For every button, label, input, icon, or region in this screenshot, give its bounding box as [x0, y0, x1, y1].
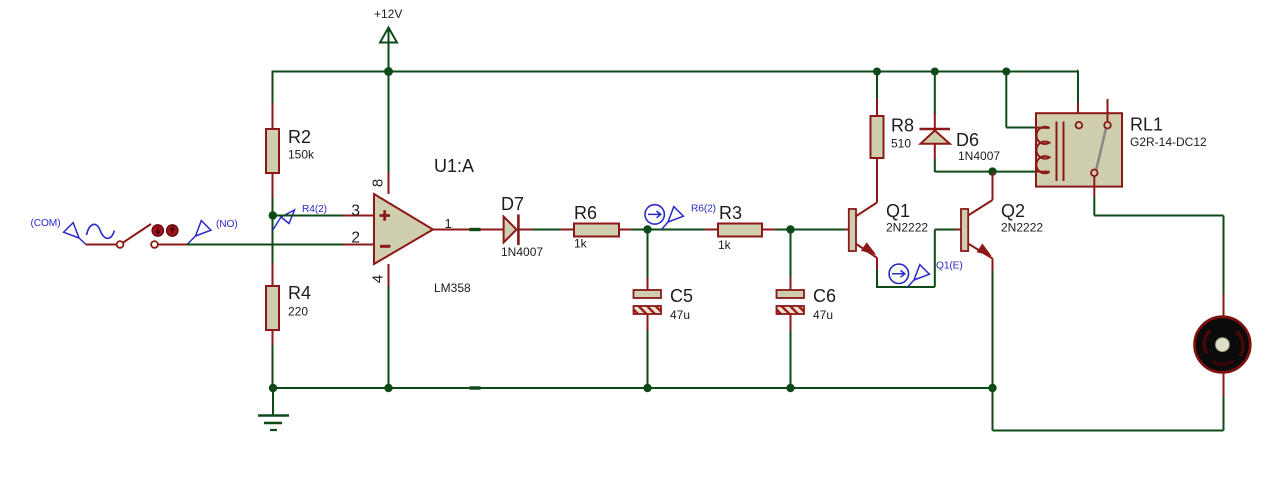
- relay NC pin stub: [1107, 99, 1109, 122]
- pin 4 (GND) wire: [388, 264, 390, 388]
- svg-text:D7: D7: [501, 194, 524, 214]
- svg-text:RL1: RL1: [1130, 115, 1163, 135]
- diode D6: [920, 129, 1001, 163]
- wire switch to op-amp pin 2: [187, 244, 374, 246]
- power +12V: [374, 7, 402, 72]
- transistor Q1: [849, 201, 929, 258]
- svg-text:47u: 47u: [670, 308, 690, 322]
- svg-text:R8: R8: [891, 116, 914, 136]
- wire ground rail: [273, 387, 993, 389]
- diode D7: [501, 194, 543, 259]
- svg-text:8: 8: [370, 179, 387, 187]
- voltage probe R6(2): [645, 204, 716, 230]
- svg-text:2N2222: 2N2222: [886, 221, 928, 235]
- svg-text:G2R-14-DC12: G2R-14-DC12: [1130, 135, 1207, 149]
- svg-text:R2: R2: [288, 127, 311, 147]
- svg-text:C6: C6: [813, 286, 836, 306]
- switch lever: [123, 224, 151, 243]
- wire relay output to motor: [1094, 176, 1223, 317]
- svg-text:2: 2: [351, 230, 360, 247]
- switch terminal 1: [117, 241, 124, 248]
- wire switch NO side: [158, 244, 187, 246]
- svg-text:C5: C5: [670, 286, 693, 306]
- svg-text:2N2222: 2N2222: [1001, 221, 1043, 235]
- node power rail / +12V junction: [384, 67, 393, 76]
- switch terminal 2: [151, 241, 158, 248]
- resistor R3: [718, 203, 762, 252]
- svg-text:1N4007: 1N4007: [501, 245, 543, 259]
- svg-text:D6: D6: [956, 130, 979, 150]
- svg-text:+12V: +12V: [374, 7, 402, 21]
- svg-text:R6: R6: [574, 203, 597, 223]
- svg-text:3: 3: [351, 202, 360, 219]
- svg-text:4: 4: [370, 275, 387, 283]
- svg-text:47u: 47u: [813, 308, 833, 322]
- node D (D6/Q2 collector/coil junction): [988, 167, 996, 175]
- svg-text:Q2: Q2: [1001, 201, 1025, 221]
- wire mid rail to relay coil: [935, 171, 1036, 173]
- wire motor bottom loop to ground rail: [993, 373, 1224, 431]
- capacitor C6: [769, 230, 836, 389]
- wire D6 column from rail: [934, 71, 936, 130]
- node power rail / D6 junction: [931, 68, 939, 76]
- svg-text:1N4007: 1N4007: [958, 149, 1000, 163]
- svg-text:LM358: LM358: [434, 281, 471, 295]
- ground: [258, 388, 289, 430]
- node ground rail right end: [988, 384, 996, 392]
- svg-text:(NO): (NO): [216, 219, 238, 230]
- wire R6 to R3: [619, 229, 718, 231]
- svg-text:510: 510: [891, 137, 911, 151]
- svg-text:R4: R4: [288, 283, 311, 303]
- wire op-amp output to D7: [432, 229, 504, 231]
- wire Q1 emitter to Q2 base: [876, 230, 961, 288]
- wire D6 anode to mid rail: [934, 144, 936, 172]
- svg-text:R6(2): R6(2): [691, 204, 716, 215]
- node C (R3/C6/Q1 junction): [786, 225, 794, 233]
- op-amp U1:A: [374, 156, 474, 295]
- capacitor C5: [626, 230, 693, 389]
- wire Q2 collector: [992, 172, 994, 200]
- node B (R6/R3/C5 junction): [643, 225, 651, 233]
- net label (COM): [30, 218, 86, 245]
- node A (R2/R4/pin3 junction): [269, 211, 277, 219]
- switch actuator button up: [167, 225, 178, 236]
- wire top power rail: [272, 71, 1078, 73]
- wire R8 column from rail: [876, 71, 878, 117]
- transistor Q2: [961, 200, 1043, 259]
- wire ground rail joint dash: [470, 386, 481, 389]
- net label (NO): [187, 219, 238, 245]
- wire rail to relay coil top: [1006, 72, 1036, 128]
- source sine squiggle: [87, 224, 115, 238]
- switch actuator button down: [152, 225, 163, 236]
- net label arrow R4(2): [273, 204, 327, 231]
- wire R3 to Q1 base: [762, 229, 849, 231]
- resistor R2: [266, 127, 315, 173]
- resistor R6: [574, 203, 619, 251]
- svg-text:220: 220: [288, 305, 308, 319]
- wire left column from rail to R2: [272, 71, 274, 130]
- svg-text:R4(2): R4(2): [302, 204, 327, 215]
- wire node A to op-amp pin 3: [273, 215, 374, 217]
- svg-text:150k: 150k: [288, 148, 315, 162]
- wire R8 to Q1 collector: [876, 158, 878, 203]
- svg-text:1k: 1k: [574, 237, 588, 251]
- resistor R4: [266, 263, 311, 330]
- pin 8 (V+) wire: [388, 72, 390, 195]
- wire rail to relay COM: [1077, 71, 1078, 123]
- node ground rail left: [269, 384, 277, 392]
- svg-text:U1:A: U1:A: [434, 156, 474, 176]
- wire R2 bottom to node A: [272, 173, 274, 263]
- svg-text:Q1(E): Q1(E): [936, 261, 963, 272]
- node power rail / R8 junction: [873, 68, 881, 76]
- wire Q2 emitter to ground rail: [992, 259, 994, 389]
- voltage probe Q1(E): [889, 261, 963, 287]
- node ground rail / C5 junction: [643, 384, 651, 392]
- svg-text:(COM): (COM): [30, 218, 60, 229]
- wire D7 to R6: [519, 229, 574, 231]
- switch SW (COM side wire): [86, 244, 117, 246]
- svg-text:R3: R3: [719, 203, 742, 223]
- svg-text:1k: 1k: [718, 238, 732, 252]
- resistor R8: [871, 116, 915, 159]
- relay RL1: [1036, 113, 1207, 186]
- node ground rail / C6 junction: [786, 384, 794, 392]
- node power rail / relay coil junction: [1002, 68, 1010, 76]
- wire R4 bottom to ground rail: [272, 330, 274, 388]
- motor: [1195, 317, 1251, 373]
- node ground rail / pin4 junction: [384, 384, 392, 392]
- svg-text:Q1: Q1: [886, 201, 910, 221]
